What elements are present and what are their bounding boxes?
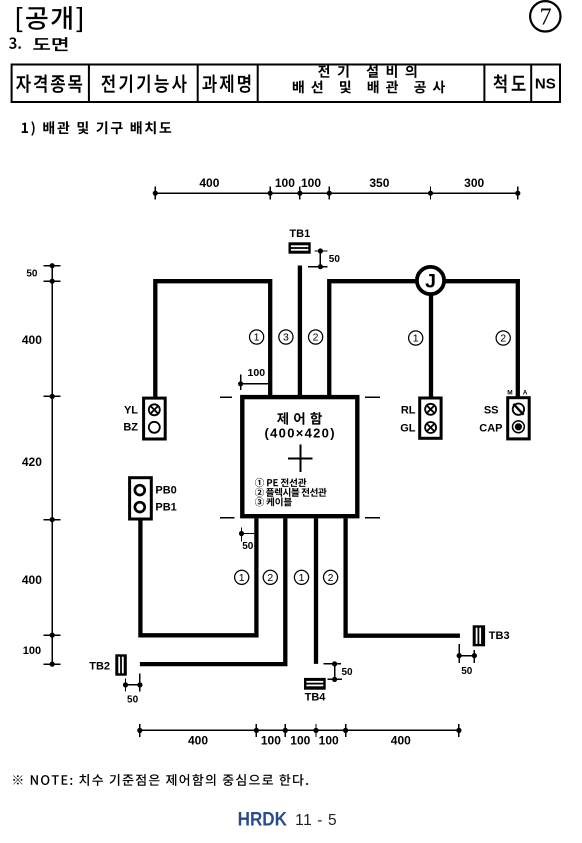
left dim tick [44, 634, 61, 636]
wire right bus conduit 3 to SS/CAP [329, 281, 518, 398]
svg-text:100: 100 [301, 176, 321, 190]
conduit label 1 (left) [250, 330, 264, 344]
lamp box YL/BZ [144, 398, 166, 439]
svg-text:1: 1 [239, 572, 245, 584]
top dim tick [269, 187, 271, 200]
svg-text:TB3: TB3 [489, 630, 510, 642]
tb1 dim dot bottom [318, 264, 323, 269]
left dim dot [50, 517, 55, 522]
terminal block TB4 [304, 678, 326, 690]
top dim tick [328, 187, 330, 200]
svg-text:CAP: CAP [479, 422, 502, 434]
top dim tick [517, 187, 519, 200]
tb2 dim tick right [139, 673, 141, 691]
wire left bus to YL/BZ and conduit 1 [155, 281, 270, 398]
tb4 dim tick bottom [327, 678, 341, 680]
legend ③ 케이블 [255, 497, 292, 506]
page number circle 7 [530, 1, 560, 31]
svg-text:420: 420 [22, 455, 42, 469]
svg-text:400: 400 [188, 734, 208, 748]
wire C control box to TB4 [314, 518, 318, 664]
svg-text:400: 400 [22, 333, 42, 347]
HRDK logo [238, 809, 287, 830]
left dim tick [44, 395, 61, 397]
left dimension line [51, 266, 53, 664]
bottom dim tick [284, 724, 286, 737]
tb3 dim dot right [472, 653, 477, 658]
tb4 dim dot bottom [332, 677, 337, 682]
conduit label 1 (wire A) [235, 570, 249, 584]
dashed mark top-left [220, 396, 232, 398]
legend ① PE 전선관 [255, 478, 306, 487]
conduit label 2 (flex) [309, 330, 323, 344]
push button PB1 [135, 502, 145, 512]
lamp GL [425, 422, 436, 433]
top dim tick [299, 187, 301, 200]
tb1 dim tick top [315, 250, 328, 252]
dashed mark bottom-left [220, 517, 235, 519]
conduit label 3 (TB1 cable) [279, 330, 293, 344]
svg-text:100: 100 [23, 645, 41, 657]
tb3 dim tick left [458, 644, 460, 663]
push button box PB0/PB1 [130, 478, 152, 519]
svg-text:100: 100 [319, 734, 339, 748]
svg-text:50: 50 [127, 695, 139, 706]
push button PB0 [135, 485, 145, 495]
top dim tick [430, 187, 432, 200]
tb1 dim tick bottom [308, 266, 328, 268]
dashed mark bottom-right [365, 517, 380, 519]
svg-text:YL: YL [124, 404, 138, 416]
left dim tick [44, 663, 61, 665]
left dim dot [50, 279, 55, 284]
terminal block TB2 [115, 654, 127, 675]
svg-text:100: 100 [248, 367, 266, 379]
top dimension line [155, 192, 518, 194]
subtitle 3. [9, 37, 21, 49]
svg-text:RL: RL [401, 404, 416, 416]
top dim dot [268, 191, 273, 196]
conduit label 2 (right) [496, 331, 510, 345]
bottom dim dot [137, 728, 142, 733]
subtitle 도면 [33, 37, 67, 51]
center cross vertical [299, 444, 301, 471]
svg-text:1: 1 [254, 332, 260, 344]
bottom dim dot [283, 728, 288, 733]
task name line2 배선 및 배관 공사 [293, 81, 445, 94]
conduit label 2 (wire B) [263, 570, 277, 584]
table cell 과제명 [202, 75, 250, 93]
table cell 자격종목 [16, 75, 82, 93]
section label 1) 배관 및 기구 배치도 [22, 121, 172, 136]
svg-text:50: 50 [242, 541, 254, 552]
wire conduit 2 from TB1 [298, 266, 302, 398]
junction box J [417, 267, 444, 294]
wire A control box to PB0/PB1 [140, 518, 256, 635]
capacitor/receptacle CAP [513, 421, 525, 433]
title table frame [12, 65, 560, 103]
bottom dim tick [255, 724, 257, 737]
legend ② 플렉시블 전선관 [255, 488, 327, 497]
title [공개] [17, 6, 82, 32]
box bottom dim line [242, 533, 254, 535]
svg-text:100: 100 [261, 734, 281, 748]
buzzer BZ [149, 422, 160, 433]
wire D control box to TB3 [346, 518, 460, 635]
svg-text:PB1: PB1 [155, 502, 176, 514]
tb4 dim dot top [332, 661, 337, 666]
selector switch SS [513, 404, 524, 415]
box bottom dim dot [239, 531, 244, 536]
tb2 dim dot left [123, 682, 128, 687]
bottom dim dot [313, 728, 318, 733]
control box label 제 어 함 [277, 412, 322, 425]
bottom dim tick [139, 724, 141, 737]
left dim dot [50, 394, 55, 399]
left dim dot [50, 633, 55, 638]
table cell 척도 [493, 74, 525, 93]
note ※ NOTE [13, 774, 308, 786]
conduit label 2 (wire D) [324, 570, 338, 584]
dashed mark top-right [365, 396, 380, 398]
lamp RL [425, 404, 436, 415]
bottom dim tick [315, 724, 317, 737]
wire J to RL/GL [429, 282, 433, 398]
top dim dot [153, 191, 158, 196]
lamp YL [149, 404, 160, 415]
box top dim dot [238, 381, 243, 386]
svg-text:300: 300 [464, 176, 484, 190]
wire B control box to TB2 [140, 518, 285, 664]
left dim tick [44, 280, 61, 282]
svg-text:A: A [523, 389, 528, 396]
svg-text:100: 100 [275, 176, 295, 190]
switch box SS/CAP [508, 398, 530, 439]
top dim dot [297, 191, 302, 196]
bottom dim dot [254, 728, 259, 733]
terminal block TB1 [289, 242, 311, 253]
svg-text:350: 350 [369, 176, 389, 190]
left dim tick [44, 519, 61, 521]
svg-text:2: 2 [267, 572, 273, 584]
svg-text:TB4: TB4 [305, 692, 327, 704]
top dim tick [154, 187, 156, 200]
left dim tick [44, 265, 61, 267]
svg-text:50: 50 [461, 666, 473, 677]
svg-text:GL: GL [400, 422, 416, 434]
tb4 dim tick top [323, 663, 341, 665]
tb3 dim line [459, 655, 474, 657]
svg-text:2: 2 [313, 332, 319, 344]
left dim dot [50, 662, 55, 667]
bottom dim dot [456, 728, 461, 733]
svg-text:PB0: PB0 [155, 485, 176, 497]
lamp box RL/GL [420, 398, 441, 438]
tb2 dim line [126, 684, 140, 686]
conduit label 1 (wire C) [294, 570, 308, 584]
svg-text:400: 400 [22, 573, 42, 587]
svg-text:400: 400 [391, 734, 411, 748]
box top dim tick [240, 375, 242, 391]
svg-text:2: 2 [500, 333, 506, 345]
top dim dot [327, 191, 332, 196]
tb4 dim vline [334, 664, 336, 680]
svg-text:J: J [425, 271, 436, 293]
center cross horizontal [288, 457, 312, 459]
bottom dim tick [458, 724, 460, 737]
bottom dimension line [140, 729, 459, 731]
tb3 dim tick right [473, 650, 475, 663]
tb1 dim dot top [318, 248, 323, 253]
task name line1 전기 설비의 [318, 65, 416, 78]
table cell 전기기능사 [101, 75, 186, 93]
svg-text:SS: SS [484, 404, 499, 416]
svg-text:TB1: TB1 [289, 228, 310, 240]
svg-text:1: 1 [413, 333, 419, 345]
top dim dot [428, 191, 433, 196]
box top dim line [241, 383, 270, 385]
tb2 dim tick left [125, 679, 127, 692]
top dim dot [515, 191, 520, 196]
box bottom dim tick [241, 527, 243, 541]
control box 제어함 outline [242, 397, 357, 516]
svg-text:BZ: BZ [123, 422, 138, 434]
svg-text:M: M [507, 389, 512, 396]
svg-text:400: 400 [199, 176, 219, 190]
svg-text:1: 1 [299, 572, 305, 584]
svg-text:HRDK: HRDK [238, 809, 287, 830]
svg-text:2: 2 [328, 572, 334, 584]
svg-text:TB2: TB2 [89, 660, 110, 672]
svg-text:50: 50 [26, 269, 38, 280]
tb3 dim dot left [457, 653, 462, 658]
conduit label 1 (J drop) [409, 331, 423, 345]
svg-text:3: 3 [283, 332, 289, 344]
svg-text:50: 50 [329, 254, 341, 265]
svg-text:11 - 5: 11 - 5 [295, 812, 337, 829]
svg-text:50: 50 [342, 667, 354, 678]
bottom dim dot [343, 728, 348, 733]
svg-text:NS: NS [535, 76, 556, 93]
left dim dot [50, 263, 55, 268]
svg-text:(400×420): (400×420) [265, 425, 336, 440]
svg-text:100: 100 [290, 734, 310, 748]
terminal block TB3 [473, 625, 485, 646]
tb2 dim dot right [137, 682, 142, 687]
bottom dim tick [345, 724, 347, 737]
svg-text:7: 7 [540, 5, 552, 31]
tb1 dim vline [319, 251, 321, 267]
